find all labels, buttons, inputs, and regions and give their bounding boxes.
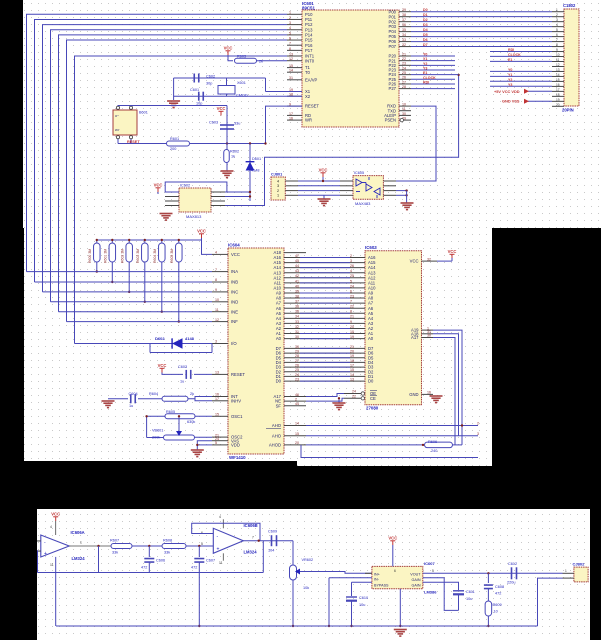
svg-text:30: 30 <box>295 335 299 339</box>
svg-text:89C51: 89C51 <box>302 6 315 11</box>
svg-text:10: 10 <box>494 610 498 614</box>
svg-text:1: 1 <box>565 569 567 573</box>
svg-text:R601 3M: R601 3M <box>104 249 108 263</box>
svg-text:13: 13 <box>556 68 560 72</box>
svg-text:10: 10 <box>402 103 406 107</box>
svg-text:SF: SF <box>276 403 282 408</box>
svg-text:C603: C603 <box>178 365 187 369</box>
svg-text:5: 5 <box>201 542 203 546</box>
svg-text:CJ801: CJ801 <box>271 173 282 177</box>
svg-text:C602: C602 <box>206 75 215 79</box>
svg-text:4148: 4148 <box>185 336 195 341</box>
svg-text:32: 32 <box>402 43 406 47</box>
svg-text:R605 3M: R605 3M <box>170 249 174 263</box>
svg-text:27: 27 <box>295 359 299 363</box>
svg-text:47: 47 <box>295 254 299 258</box>
svg-text:CE: CE <box>370 396 376 401</box>
svg-text:19: 19 <box>350 335 354 339</box>
svg-text:35: 35 <box>295 310 299 314</box>
svg-text:R604 3M: R604 3M <box>153 249 157 263</box>
svg-text:VDD: VDD <box>231 443 240 448</box>
svg-text:2k: 2k <box>259 60 263 64</box>
svg-text:VR602: VR602 <box>302 558 314 562</box>
svg-text:BYPASS: BYPASS <box>374 584 389 588</box>
svg-text:LM324: LM324 <box>244 550 258 555</box>
svg-text:472: 472 <box>141 566 147 570</box>
svg-text:2k: 2k <box>190 392 194 396</box>
svg-text:VCC: VCC <box>448 249 457 254</box>
svg-text:472: 472 <box>495 592 501 596</box>
svg-text:VCC: VCC <box>410 259 419 264</box>
svg-text:P17: P17 <box>305 48 313 53</box>
svg-text:Y2: Y2 <box>508 78 512 82</box>
svg-text:3: 3 <box>277 184 279 188</box>
svg-text:IC602: IC602 <box>180 184 190 188</box>
svg-text:A0: A0 <box>276 336 282 341</box>
svg-text:32: 32 <box>295 325 299 329</box>
svg-text:1: 1 <box>80 541 82 545</box>
svg-text:INB: INB <box>231 280 238 285</box>
svg-text:34: 34 <box>295 315 299 319</box>
svg-text:25: 25 <box>350 274 354 278</box>
svg-text:Y0: Y0 <box>508 68 512 72</box>
svg-text:5: 5 <box>350 279 352 283</box>
svg-text:15: 15 <box>215 413 219 417</box>
svg-text:IN-: IN- <box>374 578 380 582</box>
svg-text:LM386: LM386 <box>424 590 437 595</box>
svg-text:4: 4 <box>50 525 52 529</box>
svg-text:11: 11 <box>402 107 406 111</box>
svg-text:IC604: IC604 <box>228 243 240 248</box>
svg-text:E1: E1 <box>508 58 512 62</box>
svg-text:12: 12 <box>215 318 219 322</box>
svg-text:38: 38 <box>402 13 406 17</box>
svg-text:39: 39 <box>402 8 406 12</box>
svg-text:X601: X601 <box>237 81 246 85</box>
svg-text:23: 23 <box>402 62 406 66</box>
svg-text:41: 41 <box>295 279 299 283</box>
svg-text:4: 4 <box>219 515 221 519</box>
svg-text:8: 8 <box>556 43 558 47</box>
svg-text:28: 28 <box>295 354 299 358</box>
svg-text:4: 4 <box>215 251 217 255</box>
svg-text:43: 43 <box>295 269 299 273</box>
svg-text:A17: A17 <box>411 335 419 340</box>
svg-text:LM324: LM324 <box>72 556 86 561</box>
svg-text:VCC: VCC <box>158 363 167 368</box>
svg-text:15: 15 <box>350 368 354 372</box>
svg-text:30p: 30p <box>206 82 212 86</box>
svg-text:D7: D7 <box>423 43 428 47</box>
svg-text:VCC: VCC <box>224 46 233 51</box>
svg-text:X2: X2 <box>305 94 311 99</box>
svg-text:6: 6 <box>556 33 558 37</box>
svg-text:D5: D5 <box>423 33 428 37</box>
svg-text:+: + <box>44 551 47 557</box>
svg-text:1u: 1u <box>129 404 133 408</box>
svg-text:200: 200 <box>170 147 176 151</box>
svg-text:D602: D602 <box>155 336 165 341</box>
svg-text:17: 17 <box>556 88 560 92</box>
svg-text:8: 8 <box>350 310 352 314</box>
svg-text:VCC: VCC <box>388 536 397 541</box>
svg-text:44: 44 <box>295 402 299 406</box>
svg-text:I/O: I/O <box>231 341 237 346</box>
svg-text:20: 20 <box>350 325 354 329</box>
svg-text:1k: 1k <box>231 155 235 159</box>
svg-text:VCC: VCC <box>197 229 206 234</box>
svg-text:MAX813: MAX813 <box>186 214 202 219</box>
svg-text:42: 42 <box>295 274 299 278</box>
svg-text:27080: 27080 <box>366 406 379 411</box>
svg-text:10: 10 <box>215 298 219 302</box>
svg-text:18: 18 <box>350 359 354 363</box>
svg-text:VCC: VCC <box>154 183 163 188</box>
svg-text:240: 240 <box>431 449 437 453</box>
svg-text:13: 13 <box>215 371 219 375</box>
svg-text:C604: C604 <box>129 392 138 396</box>
svg-text:16: 16 <box>556 83 560 87</box>
svg-text:+: + <box>217 547 220 553</box>
svg-text:1: 1 <box>556 8 558 12</box>
svg-text:220u: 220u <box>507 581 515 585</box>
svg-text:IC605: IC605 <box>354 171 364 175</box>
svg-text:CLOCK: CLOCK <box>508 53 521 57</box>
svg-text:20: 20 <box>295 441 299 445</box>
svg-text:14: 14 <box>350 373 354 377</box>
svg-text:31: 31 <box>289 76 293 80</box>
svg-text:PSEN: PSEN <box>385 118 396 123</box>
svg-text:11: 11 <box>215 308 219 312</box>
svg-text:Y3: Y3 <box>423 66 427 70</box>
svg-text:8: 8 <box>215 278 217 282</box>
svg-text:22: 22 <box>350 305 354 309</box>
svg-text:10: 10 <box>556 53 560 57</box>
svg-text:16: 16 <box>289 117 293 121</box>
svg-text:18: 18 <box>556 93 560 97</box>
svg-text:C611: C611 <box>466 590 475 594</box>
svg-text:39: 39 <box>295 289 299 293</box>
svg-text:Y1: Y1 <box>508 73 512 77</box>
svg-text:36: 36 <box>295 305 299 309</box>
svg-text:3: 3 <box>556 18 558 22</box>
svg-text:D0: D0 <box>423 8 428 12</box>
svg-text:4: 4 <box>350 269 352 273</box>
svg-text:22: 22 <box>352 395 356 399</box>
svg-text:IN+: IN+ <box>374 572 380 576</box>
svg-text:C610: C610 <box>359 596 368 600</box>
svg-text:20: 20 <box>556 103 560 107</box>
svg-text:10: 10 <box>350 330 354 334</box>
svg-text:12: 12 <box>289 57 293 61</box>
svg-text:33k: 33k <box>112 551 118 555</box>
svg-text:2: 2 <box>295 398 297 402</box>
svg-text:15: 15 <box>295 432 299 436</box>
svg-text:R603 3M: R603 3M <box>136 249 140 263</box>
svg-text:31: 31 <box>295 330 299 334</box>
svg-text:11: 11 <box>556 58 560 62</box>
svg-text:D0: D0 <box>276 379 282 384</box>
svg-text:INT0: INT0 <box>305 58 315 63</box>
svg-text:17: 17 <box>350 363 354 367</box>
svg-text:45: 45 <box>295 259 299 263</box>
svg-text:24: 24 <box>352 390 356 394</box>
svg-text:1u: 1u <box>180 380 184 384</box>
svg-text:CMOD: CMOD <box>236 94 248 98</box>
svg-text:9: 9 <box>350 320 352 324</box>
svg-text:INF: INF <box>231 319 238 324</box>
svg-text:INE: INE <box>231 309 238 314</box>
svg-text:R602 3M: R602 3M <box>120 249 124 263</box>
svg-text:16: 16 <box>427 391 431 395</box>
svg-text:5: 5 <box>556 28 558 32</box>
svg-text:7: 7 <box>350 300 352 304</box>
svg-text:12: 12 <box>556 63 560 67</box>
svg-text:+5V VCC VDD: +5V VCC VDD <box>494 89 520 94</box>
svg-text:C603: C603 <box>209 121 218 125</box>
svg-text:Y3: Y3 <box>508 83 512 87</box>
svg-text:IC603: IC603 <box>365 245 377 250</box>
svg-text:OSC1: OSC1 <box>231 414 243 419</box>
svg-text:CJ802: CJ802 <box>573 562 586 567</box>
svg-text:D3: D3 <box>423 23 428 27</box>
svg-text:D601: D601 <box>252 157 261 161</box>
svg-text:P27: P27 <box>389 86 397 91</box>
svg-text:GND: GND <box>409 392 418 397</box>
svg-text:RDI: RDI <box>508 48 514 52</box>
svg-text:2: 2 <box>277 189 279 193</box>
svg-text:10k: 10k <box>303 586 309 590</box>
svg-text:34: 34 <box>402 33 406 37</box>
svg-text:C1802: C1802 <box>563 3 576 8</box>
svg-text:19: 19 <box>350 354 354 358</box>
svg-text:11: 11 <box>50 563 54 567</box>
svg-text:w.r: w.r <box>115 128 120 132</box>
svg-text:23: 23 <box>350 294 354 298</box>
svg-text:C606: C606 <box>156 559 165 563</box>
svg-text:40: 40 <box>295 284 299 288</box>
svg-text:D1: D1 <box>423 13 428 17</box>
svg-text:INC: INC <box>231 290 238 295</box>
svg-text:2: 2 <box>477 422 479 426</box>
svg-text:30: 30 <box>427 334 431 338</box>
svg-text:3: 3 <box>477 432 479 436</box>
svg-text:7: 7 <box>252 536 254 540</box>
svg-text:1: 1 <box>289 11 291 15</box>
svg-text:C608: C608 <box>495 585 504 589</box>
svg-text:13: 13 <box>350 377 354 381</box>
svg-text:4: 4 <box>277 179 279 183</box>
svg-text:D0: D0 <box>368 379 374 384</box>
svg-text:AHOD: AHOD <box>269 442 281 447</box>
svg-text:28: 28 <box>402 85 406 89</box>
svg-text:VCC: VCC <box>231 252 240 257</box>
svg-text:14: 14 <box>556 73 560 77</box>
svg-text:VCC: VCC <box>51 512 60 517</box>
svg-text:B601: B601 <box>139 111 148 115</box>
svg-text:21: 21 <box>402 52 406 56</box>
svg-text:8: 8 <box>289 47 291 51</box>
svg-text:R605: R605 <box>166 410 175 414</box>
svg-text:14: 14 <box>289 69 293 73</box>
svg-text:CLOCK: CLOCK <box>423 76 436 80</box>
svg-text:C612: C612 <box>508 562 517 566</box>
svg-text:IC607: IC607 <box>424 561 435 566</box>
svg-text:21: 21 <box>350 345 354 349</box>
svg-text:24: 24 <box>350 284 354 288</box>
svg-text:RESET: RESET <box>231 372 245 377</box>
svg-text:472: 472 <box>191 566 197 570</box>
svg-text:R607: R607 <box>110 539 119 543</box>
svg-text:D6: D6 <box>423 38 428 42</box>
svg-text:INHV: INHV <box>231 398 241 403</box>
svg-text:R600 3M: R600 3M <box>88 249 92 263</box>
svg-text:VCC: VCC <box>217 106 226 111</box>
svg-text:10u: 10u <box>359 603 365 607</box>
svg-text:26: 26 <box>295 363 299 367</box>
svg-text:C609: C609 <box>268 530 277 534</box>
svg-text:44: 44 <box>295 264 299 268</box>
svg-text:3: 3 <box>215 340 217 344</box>
svg-text:IC606A: IC606A <box>71 530 85 535</box>
svg-text:23: 23 <box>295 377 299 381</box>
svg-text:R606: R606 <box>428 440 437 444</box>
svg-text:Y0: Y0 <box>423 53 427 57</box>
svg-text:27: 27 <box>402 80 406 84</box>
svg-text:o~: o~ <box>115 114 119 118</box>
svg-text:13: 13 <box>289 52 293 56</box>
svg-text:36: 36 <box>402 23 406 27</box>
svg-text:A0: A0 <box>368 336 374 341</box>
svg-text:E1: E1 <box>423 71 427 75</box>
svg-text:30: 30 <box>402 112 406 116</box>
svg-text:MAX483: MAX483 <box>355 201 371 206</box>
svg-text:14: 14 <box>295 422 299 426</box>
svg-text:25: 25 <box>402 71 406 75</box>
svg-text:7: 7 <box>556 38 558 42</box>
svg-text:26: 26 <box>350 264 354 268</box>
svg-text:29: 29 <box>295 349 299 353</box>
svg-text:15: 15 <box>289 64 293 68</box>
svg-text:35: 35 <box>402 28 406 32</box>
svg-text:15: 15 <box>556 78 560 82</box>
svg-text:R603: R603 <box>237 55 246 59</box>
svg-text:6: 6 <box>394 569 396 573</box>
svg-text:33: 33 <box>295 320 299 324</box>
svg-text:33: 33 <box>402 38 406 42</box>
svg-text:4: 4 <box>556 23 558 27</box>
svg-text:10p: 10p <box>196 102 202 106</box>
svg-text:C607: C607 <box>206 559 215 563</box>
svg-text:VB601: VB601 <box>152 429 163 433</box>
svg-text:AHO: AHO <box>272 423 282 428</box>
svg-text:2: 2 <box>350 254 352 258</box>
svg-text:4: 4 <box>289 26 291 30</box>
svg-text:5: 5 <box>215 441 217 445</box>
svg-text:6: 6 <box>350 289 352 293</box>
svg-text:IND: IND <box>231 299 238 304</box>
svg-text:R602: R602 <box>230 150 239 154</box>
svg-text:21: 21 <box>350 315 354 319</box>
svg-text:VCC: VCC <box>319 168 328 173</box>
svg-text:D4: D4 <box>423 28 428 32</box>
svg-text:5: 5 <box>432 569 434 573</box>
svg-text:C601: C601 <box>190 88 199 92</box>
svg-text:AHO: AHO <box>272 433 282 438</box>
svg-text:R608: R608 <box>163 539 172 543</box>
svg-text:20PIN: 20PIN <box>562 108 574 113</box>
svg-text:32: 32 <box>427 257 431 261</box>
svg-text:3: 3 <box>350 259 352 263</box>
svg-text:7: 7 <box>289 42 291 46</box>
svg-text:10u: 10u <box>466 597 472 601</box>
svg-text:33u: 33u <box>234 122 240 126</box>
svg-text:5: 5 <box>289 31 291 35</box>
svg-text:3: 3 <box>289 21 291 25</box>
svg-text:7: 7 <box>215 268 217 272</box>
svg-text:GND VSS: GND VSS <box>502 99 520 104</box>
svg-text:R609: R609 <box>493 603 502 607</box>
svg-text:1: 1 <box>277 194 279 198</box>
svg-text:20: 20 <box>350 349 354 353</box>
svg-text:WF1410: WF1410 <box>229 455 246 460</box>
svg-text:Y2: Y2 <box>423 62 427 66</box>
svg-text:EA/VP: EA/VP <box>305 77 318 82</box>
svg-text:11: 11 <box>219 561 223 565</box>
svg-text:25: 25 <box>295 368 299 372</box>
svg-text:33k: 33k <box>164 551 170 555</box>
svg-text:RESET: RESET <box>127 140 140 144</box>
svg-text:6: 6 <box>289 36 291 40</box>
svg-text:24: 24 <box>295 373 299 377</box>
svg-text:2: 2 <box>289 16 291 20</box>
svg-text:GAIN: GAIN <box>411 584 420 588</box>
svg-text:Y1: Y1 <box>423 57 427 61</box>
svg-text:200k: 200k <box>152 436 160 440</box>
svg-text:9: 9 <box>215 288 217 292</box>
svg-text:9: 9 <box>556 48 558 52</box>
svg-text:4148: 4148 <box>251 169 259 173</box>
svg-text:INA: INA <box>231 269 238 274</box>
svg-text:D2: D2 <box>423 18 428 22</box>
svg-text:46: 46 <box>295 393 299 397</box>
svg-text:38: 38 <box>295 294 299 298</box>
svg-text:WR: WR <box>305 118 312 123</box>
svg-text:RESET: RESET <box>305 104 319 109</box>
svg-text:T0: T0 <box>305 70 311 75</box>
svg-text:R604: R604 <box>149 392 158 396</box>
svg-text:RDI: RDI <box>423 80 429 84</box>
svg-text:R601: R601 <box>170 137 179 141</box>
svg-text:37: 37 <box>295 300 299 304</box>
svg-text:2: 2 <box>556 13 558 17</box>
svg-text:P07: P07 <box>389 44 397 49</box>
svg-text:30: 30 <box>295 345 299 349</box>
svg-text:17: 17 <box>215 397 219 401</box>
svg-text:630k: 630k <box>187 420 195 424</box>
svg-text:GAIN: GAIN <box>411 578 420 582</box>
svg-text:19: 19 <box>556 98 560 102</box>
svg-text:37: 37 <box>402 18 406 22</box>
svg-text:26: 26 <box>402 76 406 80</box>
svg-text:104: 104 <box>268 549 274 553</box>
svg-text:17: 17 <box>289 112 293 116</box>
svg-text:VOUT: VOUT <box>410 572 421 576</box>
svg-text:22: 22 <box>402 57 406 61</box>
svg-text:24: 24 <box>402 66 406 70</box>
